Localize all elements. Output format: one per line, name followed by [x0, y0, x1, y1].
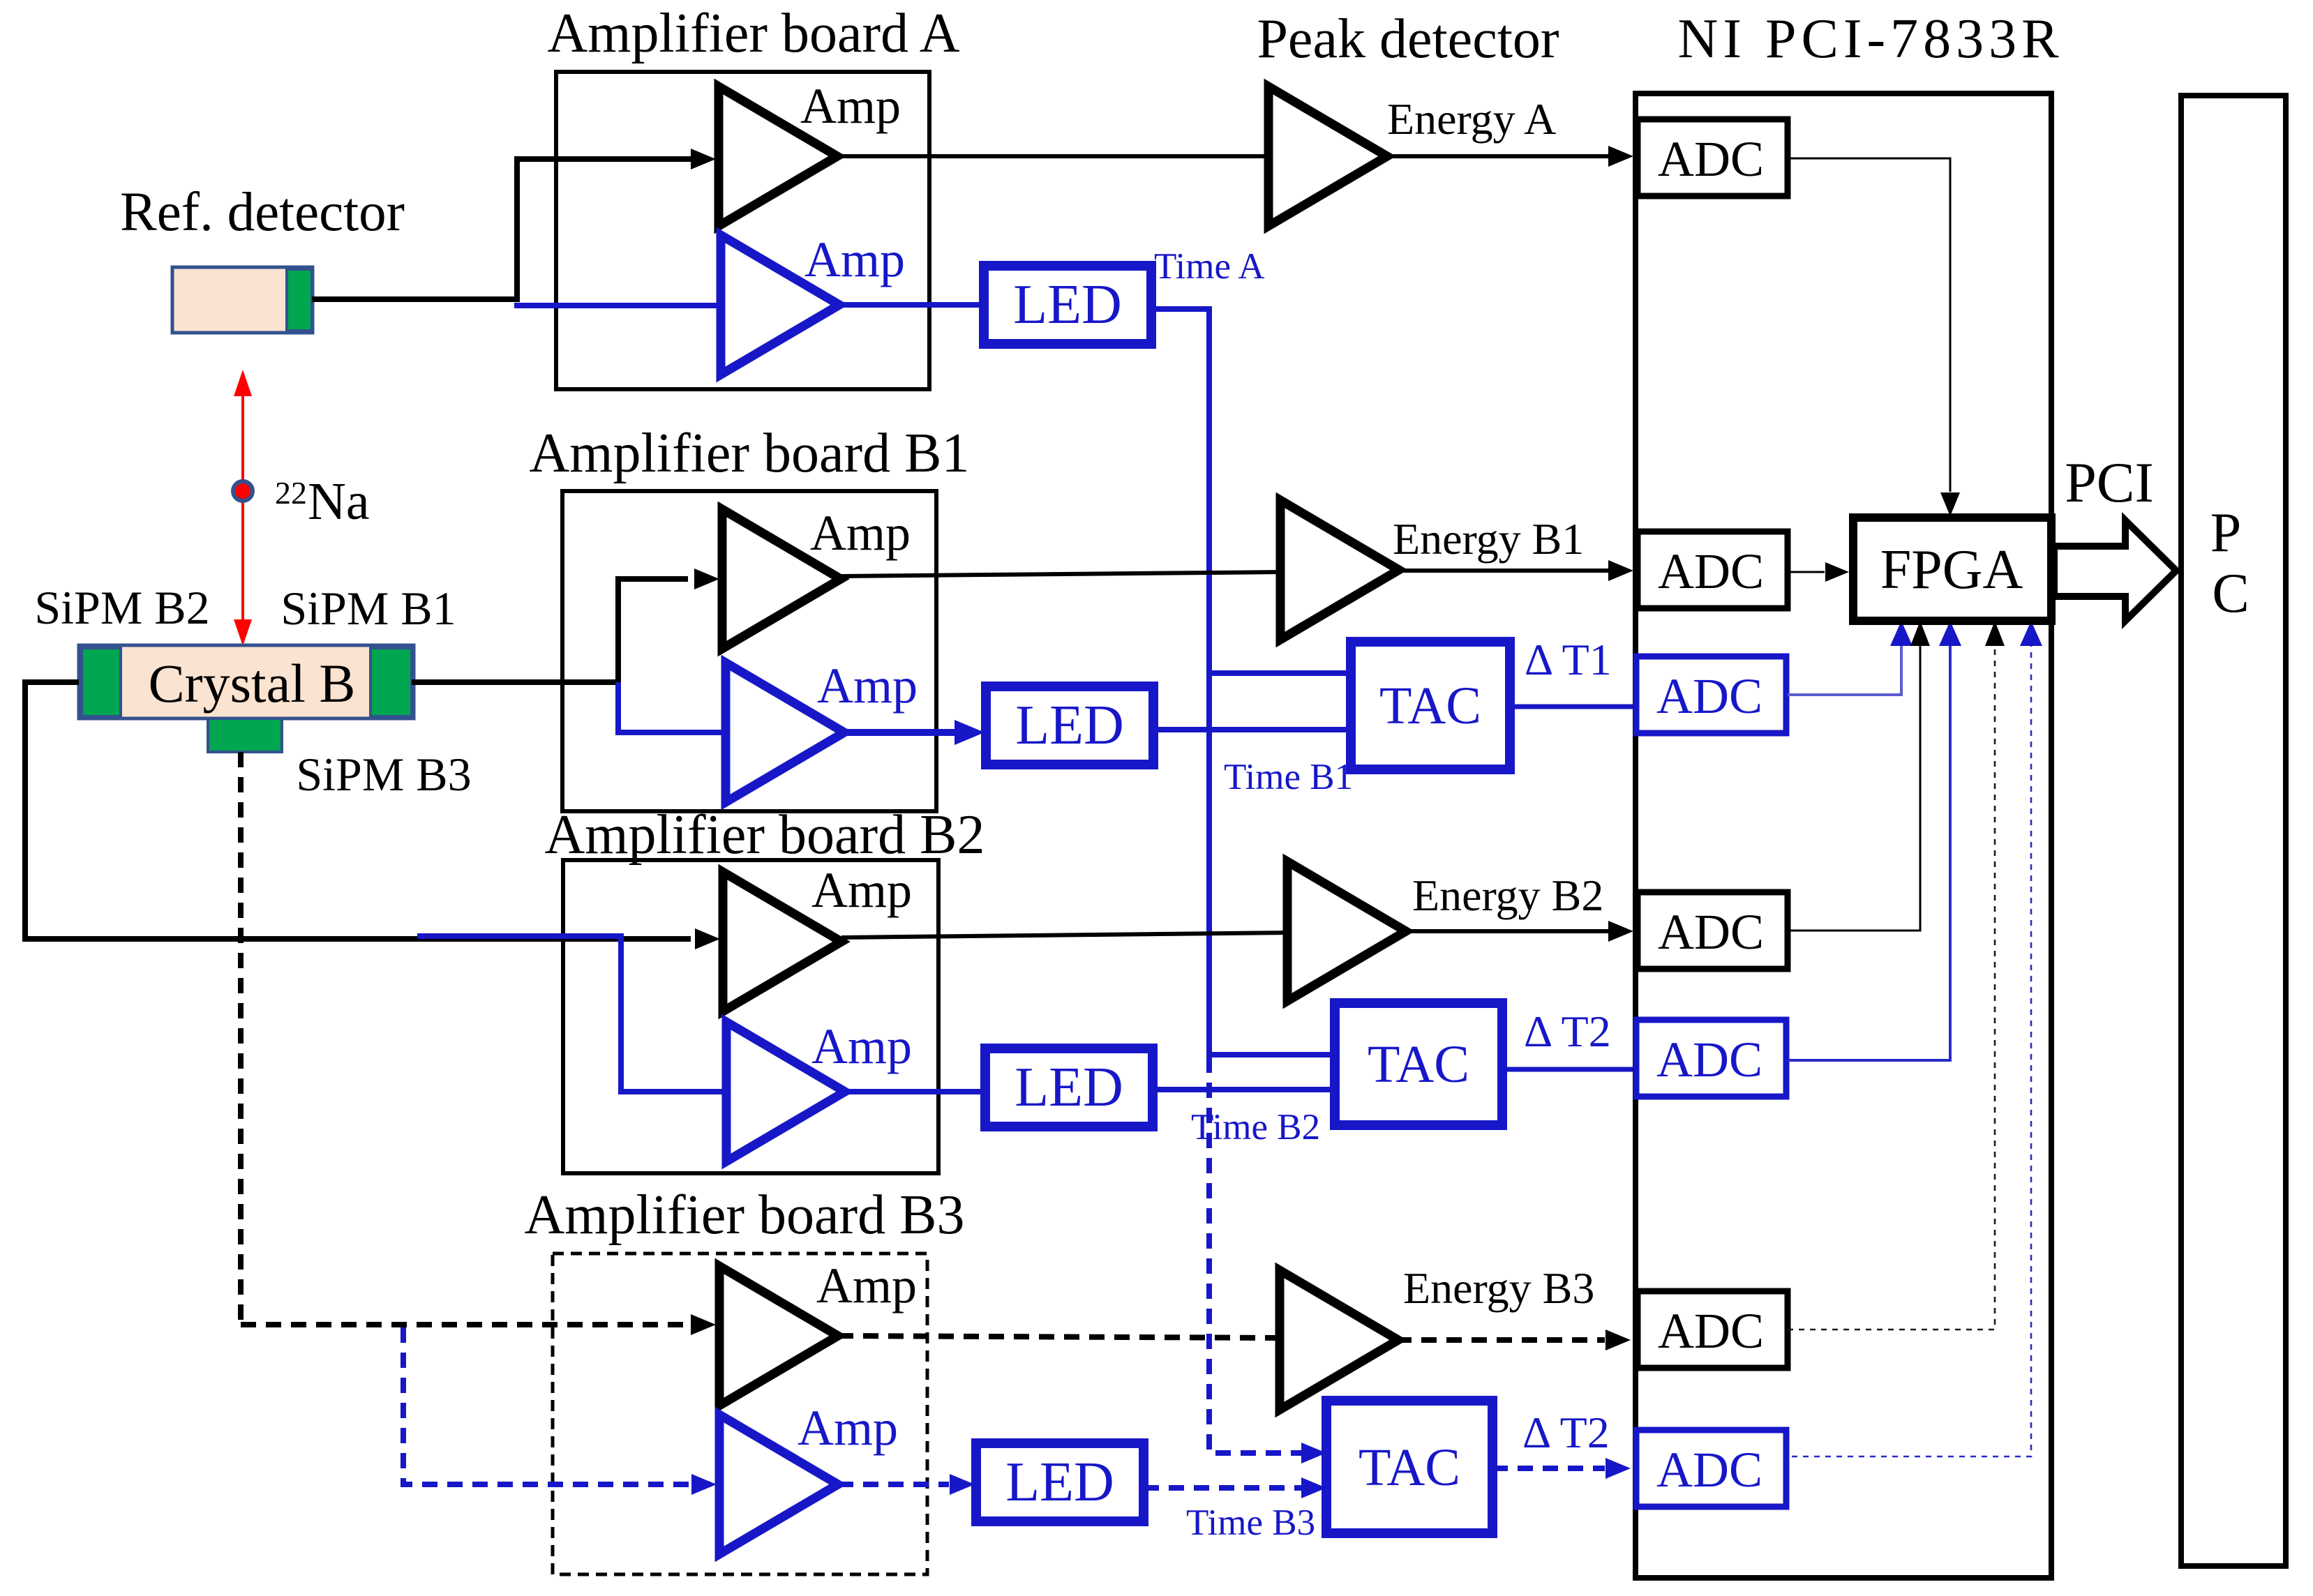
NI PCI-7833R enclosure — [1635, 93, 2051, 1578]
arrow into LED B3 — [950, 1474, 975, 1495]
crystal B body — [79, 645, 414, 718]
wire ADC B3 dotted to FPGA bottom — [1788, 645, 1995, 1330]
LED box B2 — [985, 1048, 1153, 1127]
arrow into amp B3 — [691, 1314, 716, 1335]
arrow Energy B3 — [1605, 1330, 1631, 1350]
ADC box delta T2 B3 — [1636, 1430, 1786, 1507]
wire junction riser to amp A — [517, 159, 691, 302]
arrow LED B3 into TAC B3 — [1301, 1477, 1326, 1498]
svg-text:Time A: Time A — [1154, 246, 1265, 287]
board B2 box — [563, 860, 938, 1173]
wire amp B3 to peak detector B3 dashed — [838, 1336, 1282, 1338]
wire trunk dashed to TAC B3 — [1209, 1057, 1302, 1453]
op-amp Amp B2 timing — [726, 1022, 845, 1161]
svg-text:C: C — [2212, 563, 2249, 624]
wire blue dashed branch to timing amp B3 — [403, 1327, 691, 1484]
wire blue branch to timing amp A — [514, 303, 722, 308]
svg-text:Amp: Amp — [817, 658, 918, 714]
arrow Energy B1 — [1608, 560, 1633, 581]
svg-text:LED: LED — [1013, 274, 1122, 336]
wire blue amp B1 to LED B1 — [844, 729, 956, 736]
wire Energy B2 to ADC — [1404, 929, 1608, 933]
wire TAC B2 to ADC — [1502, 1067, 1638, 1072]
wire blue overlay to timing amp B2 — [417, 936, 731, 1092]
wire ADC T1 to FPGA bottom — [1788, 645, 1901, 695]
arrow dashed black B3 into FPGA — [1985, 621, 2005, 646]
op-amp Amp B1 energy — [722, 509, 841, 649]
board B1 box — [562, 491, 936, 811]
svg-text:NI PCI-7833R: NI PCI-7833R — [1678, 8, 2064, 70]
svg-text:Δ T2: Δ T2 — [1522, 1408, 1610, 1457]
svg-text:LED: LED — [1015, 1057, 1123, 1118]
ADC box energy B1 — [1638, 532, 1788, 608]
svg-text:Amplifier board A: Amplifier board A — [548, 3, 960, 64]
svg-text:Δ T2: Δ T2 — [1524, 1007, 1611, 1056]
TAC box B3 — [1326, 1401, 1492, 1533]
wire ADC A to FPGA top — [1788, 158, 1950, 492]
peak detector A triangle — [1268, 86, 1387, 226]
svg-text:Energy A: Energy A — [1387, 94, 1556, 144]
svg-text:Energy B3: Energy B3 — [1403, 1263, 1594, 1313]
op-amp Amp B1 timing — [726, 663, 844, 802]
wire amp A to peak detector A — [837, 154, 1270, 158]
ref detector green photosensor — [287, 269, 312, 331]
svg-text:Ref. detector: Ref. detector — [120, 182, 405, 243]
op-amp Amp A energy — [719, 86, 837, 226]
peak detector B3 triangle — [1280, 1270, 1398, 1410]
svg-text:ADC: ADC — [1658, 904, 1764, 960]
wire blue amp B3 to LED B3 dashed — [838, 1482, 949, 1487]
wire Energy A to ADC — [1385, 154, 1608, 158]
op-amp Amp B3 timing — [719, 1415, 838, 1554]
wire SiPM B3 dashed down — [238, 752, 244, 1322]
svg-text:Energy B1: Energy B1 — [1393, 514, 1584, 564]
svg-text:Amplifier board B1: Amplifier board B1 — [530, 423, 970, 484]
arrow trunk into TAC B3 — [1301, 1443, 1326, 1463]
svg-text:LED: LED — [1015, 695, 1124, 756]
svg-text:Amp: Amp — [800, 78, 901, 134]
svg-text:Amp: Amp — [811, 862, 912, 918]
wire dashed to amp B3 — [241, 1322, 687, 1327]
arrow into amp A — [691, 149, 716, 170]
svg-text:TAC: TAC — [1368, 1035, 1469, 1094]
board A box — [556, 72, 929, 389]
svg-text:ADC: ADC — [1656, 668, 1762, 724]
svg-text:Time B3: Time B3 — [1186, 1503, 1315, 1543]
wire blue amp B2 to LED B2 — [845, 1089, 987, 1094]
svg-text:PCI: PCI — [2065, 451, 2154, 514]
ADC box energy A — [1638, 119, 1788, 196]
wire riser to amp B1 — [618, 579, 688, 682]
svg-text:LED: LED — [1005, 1452, 1114, 1513]
wire ADC T2 to FPGA bottom — [1788, 645, 1950, 1060]
svg-text:Peak detector: Peak detector — [1257, 8, 1559, 70]
red double arrow — [234, 370, 252, 646]
arrow black B2 into FPGA — [1910, 621, 1930, 646]
ref detector body — [172, 267, 313, 333]
SiPM B3 green pad bottom — [208, 718, 282, 752]
wire LED B2 to TAC B2 — [1153, 1087, 1338, 1092]
wire trunk branch to TAC B1 — [1209, 670, 1354, 676]
svg-text:Amp: Amp — [798, 1400, 898, 1456]
svg-text:Δ T1: Δ T1 — [1525, 635, 1612, 684]
wire LED A out and Time A trunk — [1151, 309, 1209, 1055]
svg-text:22: 22 — [275, 475, 307, 511]
wire amp B2 to peak detector B2 — [841, 933, 1291, 938]
ADC box energy B3 — [1638, 1291, 1788, 1368]
wire blue amp A to LED A — [839, 302, 985, 308]
wire amp B1 to peak detector B1 — [841, 572, 1284, 576]
arrow into amp B1 — [694, 569, 719, 589]
wire ADC T2 B3 dotted to FPGA bottom — [1792, 645, 2031, 1456]
svg-text:Amp: Amp — [811, 1018, 912, 1074]
op-amp Amp A timing — [721, 235, 839, 375]
wire ADC B2 to FPGA bottom — [1788, 645, 1920, 931]
22Na source dot — [233, 481, 253, 501]
wire trunk elbow to TAC B2 — [1206, 1052, 1338, 1057]
arrow blue T2 into FPGA — [1939, 621, 1961, 646]
wire ADC B1 to FPGA left — [1788, 571, 1825, 573]
board B3 box dashed — [553, 1254, 927, 1574]
ADC box energy B2 — [1638, 892, 1788, 969]
arrow into FPGA top — [1940, 492, 1960, 516]
svg-text:TAC: TAC — [1358, 1438, 1460, 1497]
peak detector B1 triangle — [1280, 500, 1399, 640]
arrow TAC B3 into ADC — [1605, 1458, 1631, 1479]
wire TAC B3 to ADC dashed — [1492, 1466, 1605, 1471]
TAC box B2 — [1335, 1003, 1502, 1125]
wire crystal right to board B1 — [412, 679, 621, 685]
svg-text:ADC: ADC — [1658, 1303, 1764, 1359]
svg-text:Na: Na — [308, 472, 370, 531]
arrow into amp B2 — [695, 928, 720, 949]
op-amp Amp B2 energy — [723, 872, 841, 1011]
arrow dashed blue B3 into FPGA — [2020, 621, 2042, 646]
PCI block arrow — [2054, 520, 2176, 621]
LED box B1 — [986, 686, 1153, 765]
peak detector B2 triangle — [1287, 861, 1406, 1001]
wire Energy B1 to ADC — [1397, 569, 1608, 573]
svg-text:ADC: ADC — [1658, 543, 1764, 599]
SiPM B2 green pad left — [82, 648, 121, 716]
wire Energy B3 to ADC dashed — [1396, 1337, 1605, 1343]
svg-text:Crystal B: Crystal B — [149, 653, 356, 714]
svg-text:ADC: ADC — [1656, 1442, 1762, 1498]
wire ref detector to junction — [312, 296, 520, 302]
wire LED B3 to TAC B3 dashed — [1144, 1485, 1302, 1491]
svg-text:FPGA: FPGA — [1880, 539, 2023, 601]
svg-text:Amp: Amp — [816, 1258, 917, 1313]
wire TAC B1 to ADC — [1510, 705, 1638, 709]
arrow into timing amp B3 — [691, 1474, 717, 1495]
FPGA box — [1853, 518, 2051, 621]
svg-text:Amp: Amp — [804, 232, 905, 287]
PC box — [2181, 96, 2286, 1566]
arrow into LED B1 — [955, 720, 985, 745]
wire blue drop to timing amp B1 — [618, 682, 726, 732]
svg-text:Amp: Amp — [810, 505, 911, 561]
svg-text:SiPM B1: SiPM B1 — [280, 582, 456, 635]
arrow Energy B2 — [1608, 921, 1633, 942]
svg-text:Energy B2: Energy B2 — [1412, 871, 1603, 920]
ADC box delta T1 — [1636, 656, 1786, 733]
arrow into FPGA left — [1825, 562, 1849, 582]
svg-text:Time B2: Time B2 — [1191, 1107, 1320, 1147]
svg-text:Time B1: Time B1 — [1224, 757, 1353, 797]
wire LED B1 to TAC B1 — [1153, 727, 1354, 732]
svg-text:SiPM B2: SiPM B2 — [34, 581, 209, 634]
svg-text:ADC: ADC — [1656, 1032, 1762, 1087]
svg-text:Amplifier board B2: Amplifier board B2 — [545, 804, 985, 866]
svg-text:TAC: TAC — [1379, 677, 1481, 735]
LED box B3 — [976, 1443, 1144, 1521]
op-amp Amp B3 energy — [719, 1266, 838, 1406]
svg-text:P: P — [2210, 502, 2242, 564]
svg-text:Amplifier board B3: Amplifier board B3 — [525, 1184, 965, 1246]
wire crystal left to board B2 — [25, 682, 691, 939]
LED box A — [984, 266, 1151, 344]
SiPM B1 green pad right — [370, 648, 412, 716]
TAC box B1 — [1351, 642, 1510, 769]
svg-text:SiPM B3: SiPM B3 — [296, 748, 471, 801]
ADC box delta T2 — [1636, 1020, 1786, 1097]
arrow Energy A — [1608, 146, 1633, 167]
svg-text:ADC: ADC — [1658, 131, 1764, 187]
arrow blue T1 into FPGA — [1890, 621, 1912, 646]
